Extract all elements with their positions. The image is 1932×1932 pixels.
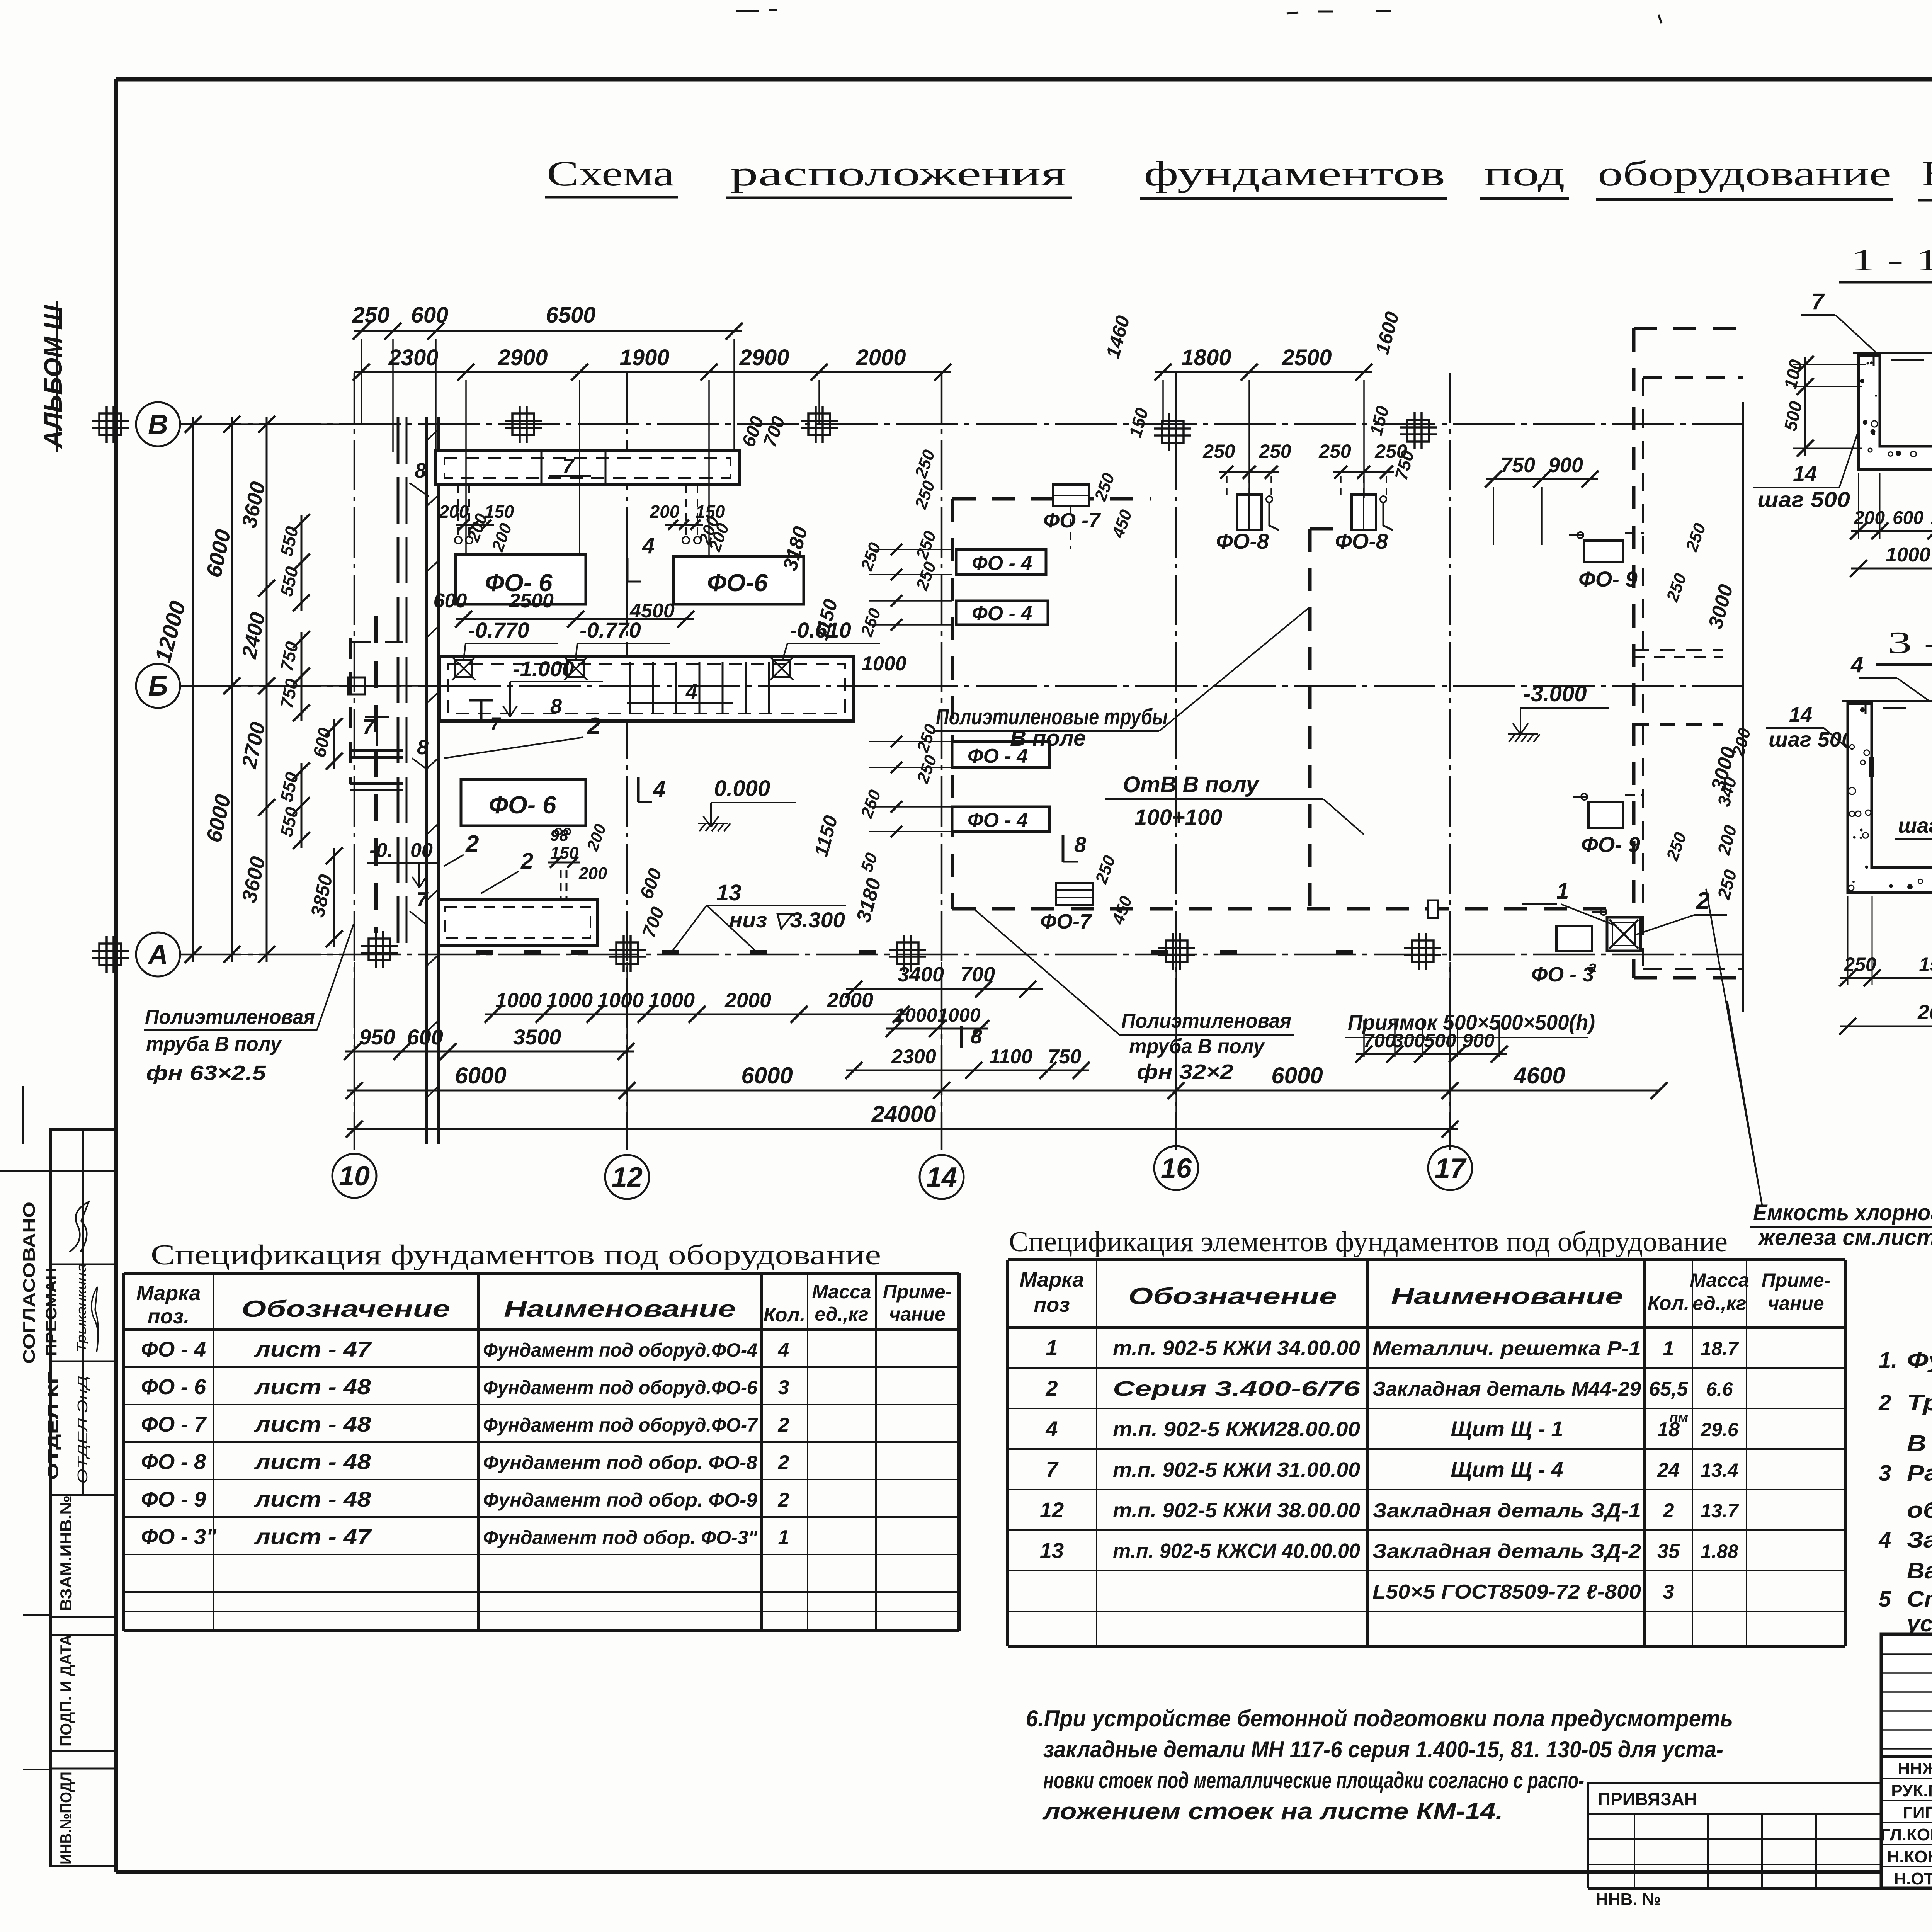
- svg-text:3: 3: [778, 1376, 789, 1399]
- svg-text:Приме-: Приме-: [883, 1281, 952, 1303]
- svg-text:Закладная деталь ЗД-2: Закладная деталь ЗД-2: [1372, 1540, 1641, 1563]
- svg-text:18.7: 18.7: [1701, 1338, 1739, 1359]
- svg-text:2: 2: [1045, 1376, 1058, 1400]
- svg-text:лист - 48: лист - 48: [254, 1412, 371, 1436]
- svg-text:ОтВ В полу: ОтВ В полу: [1123, 772, 1260, 797]
- svg-text:ГЛ.КОНС.: ГЛ.КОНС.: [1881, 1825, 1932, 1844]
- svg-text:950: 950: [359, 1025, 395, 1049]
- svg-text:2: 2: [1663, 1500, 1674, 1522]
- svg-text:Фундамент под обор. ФО-8: Фундамент под обор. ФО-8: [483, 1452, 757, 1473]
- svg-text:ФО- 9: ФО- 9: [1581, 832, 1640, 857]
- svg-text:Обозначение: Обозначение: [1128, 1283, 1337, 1309]
- svg-text:СОГЛАСОВАНО: СОГЛАСОВАНО: [20, 1202, 39, 1364]
- svg-text:24000: 24000: [871, 1101, 936, 1127]
- svg-text:12: 12: [612, 1162, 643, 1193]
- svg-text:7: 7: [1046, 1457, 1059, 1481]
- svg-text:Кол.: Кол.: [764, 1304, 806, 1326]
- svg-text:ГИП: ГИП: [1903, 1803, 1932, 1822]
- svg-text:Фундаменты под оборудование: Фундаменты под оборудование см. лист КЖ …: [1907, 1348, 1932, 1373]
- svg-text:-0.: -0.: [369, 839, 393, 862]
- svg-text:Щит Щ - 4: Щит Щ - 4: [1451, 1457, 1563, 1481]
- svg-text:Закладные В стене для подве: Закладные В стене для подвески кабеля ус…: [1907, 1527, 1932, 1553]
- svg-text:железа см.лист: железа см.лист: [1757, 1225, 1932, 1250]
- svg-text:24: 24: [1657, 1459, 1680, 1481]
- svg-text:фн 32×2: фн 32×2: [1137, 1060, 1233, 1083]
- svg-text:2: 2: [778, 1414, 789, 1436]
- svg-text:Н.ОТД: Н.ОТД: [1894, 1869, 1932, 1888]
- svg-text:Фундамент под обор. ФО-3": Фундамент под обор. ФО-3": [483, 1527, 758, 1548]
- svg-text:фундаментов: фундаментов: [1144, 154, 1445, 193]
- svg-text:ФО - 4: ФО - 4: [141, 1337, 206, 1361]
- svg-text:ФО-8: ФО-8: [1216, 529, 1269, 553]
- column symbols on axes: [99, 413, 121, 435]
- svg-text:Н.КОНТ.: Н.КОНТ.: [1887, 1847, 1932, 1866]
- building outline right: [1742, 402, 1744, 1012]
- svg-text:17: 17: [1435, 1153, 1467, 1184]
- bottom-left grid of title block: [1587, 1814, 1589, 1888]
- svg-text:лист - 47: лист - 47: [254, 1524, 372, 1549]
- svg-text:2500: 2500: [1281, 345, 1332, 370]
- sheet frame: [116, 77, 1932, 82]
- svg-text:2: 2: [465, 831, 479, 857]
- svg-text:ФО - 3": ФО - 3": [141, 1524, 217, 1549]
- svg-text:т.п. 902-5 КЖИ 31.00.00: т.п. 902-5 КЖИ 31.00.00: [1113, 1458, 1360, 1481]
- svg-text:250: 250: [1202, 440, 1235, 462]
- column grid lines 10,12,14,16,17: [354, 373, 355, 1150]
- svg-text:3: 3: [1879, 1461, 1891, 1486]
- svg-text:Полиэтиленовая: Полиэтиленовая: [145, 1005, 315, 1029]
- svg-text:Б: Б: [148, 671, 168, 702]
- svg-text:ФО -7: ФО -7: [1043, 509, 1101, 532]
- svg-text:Схема: Схема: [547, 154, 674, 193]
- svg-text:шаг 500: шаг 500: [1769, 728, 1854, 751]
- svg-text:Щит Щ - 1: Щит Щ - 1: [1451, 1417, 1563, 1441]
- svg-text:35: 35: [1657, 1540, 1680, 1563]
- svg-text:1: 1: [778, 1526, 789, 1549]
- svg-text:лист - 47: лист - 47: [254, 1337, 372, 1361]
- FO-8 boxes: [1237, 495, 1262, 530]
- svg-text:В осях 10÷17: В осях 10÷17: [1922, 154, 1932, 193]
- column circle 17: [1428, 1146, 1472, 1190]
- svg-text:1100: 1100: [989, 1046, 1032, 1068]
- svg-text:новки стоек под металлически: новки стоек под металлические площадки с…: [1043, 1767, 1584, 1793]
- svg-text:250: 250: [1844, 954, 1876, 975]
- top dim row 1: [354, 330, 742, 332]
- small white pipe mark on dashed line: [1428, 900, 1438, 918]
- dim 750 900 above FO-9: [1486, 478, 1598, 480]
- svg-text:под: под: [1484, 154, 1565, 193]
- svg-text:3: 3: [1663, 1581, 1674, 1603]
- svg-text:6000: 6000: [1271, 1063, 1323, 1088]
- pit (priyamok) near col17: [1556, 926, 1592, 951]
- svg-text:13.4: 13.4: [1701, 1459, 1738, 1481]
- embedded detail marks on axis A: [476, 950, 493, 955]
- svg-text:7: 7: [1811, 289, 1825, 314]
- svg-text:Металлич. решетка Р-1: Металлич. решетка Р-1: [1372, 1337, 1641, 1360]
- svg-text:Серия 3.400-6/76: Серия 3.400-6/76: [1113, 1377, 1361, 1400]
- svg-text:Полиэтиленовая: Полиэтиленовая: [1121, 1009, 1291, 1032]
- wall B (main vertical wall): [425, 417, 428, 1144]
- svg-text:Разбивка отверстий и закла: Разбивка отверстий и закладных В фундаме…: [1907, 1461, 1932, 1486]
- axis circle A: [136, 932, 180, 976]
- svg-text:Приямок 500×500×500(h): Приямок 500×500×500(h): [1348, 1010, 1595, 1034]
- svg-text:2900: 2900: [497, 345, 548, 370]
- svg-text:7: 7: [562, 455, 575, 478]
- svg-text:т.п. 902-5 КЖИ 38.00.00: т.п. 902-5 КЖИ 38.00.00: [1113, 1499, 1360, 1522]
- svg-text:2: 2: [587, 713, 600, 740]
- svg-text:13: 13: [716, 880, 742, 905]
- svg-text:8: 8: [971, 1025, 982, 1048]
- svg-text:14: 14: [926, 1162, 957, 1193]
- svg-text:-0.770: -0.770: [468, 618, 529, 642]
- svg-text:1000: 1000: [597, 989, 644, 1012]
- column circle 14: [920, 1155, 964, 1199]
- svg-text:Фундамент под обор. ФО-9: Фундамент под обор. ФО-9: [483, 1489, 757, 1511]
- svg-text:10: 10: [339, 1161, 370, 1192]
- svg-text:фн 63×2.5: фн 63×2.5: [146, 1061, 266, 1085]
- small frame marks left: [22, 1086, 24, 1144]
- svg-text:4: 4: [1045, 1417, 1058, 1441]
- svg-text:1: 1: [1663, 1337, 1674, 1360]
- FO-7 bottom: [1056, 883, 1093, 905]
- svg-text:А: А: [147, 939, 168, 970]
- soglasovano block: [51, 1129, 116, 1866]
- svg-text:шаг 500: шаг 500: [1898, 814, 1932, 837]
- svg-text:ед.,кг: ед.,кг: [1692, 1293, 1746, 1314]
- svg-text:Закладная деталь ЗД-1: Закладная деталь ЗД-1: [1372, 1500, 1641, 1522]
- svg-text:ФО- 9: ФО- 9: [1578, 567, 1638, 591]
- stair treads: [629, 662, 631, 713]
- svg-text:пм: пм: [1670, 1409, 1689, 1425]
- svg-text:закладные детали МН 117-6: закладные детали МН 117-6 серия 1.400-15…: [1043, 1736, 1723, 1762]
- svg-text:14: 14: [1793, 461, 1817, 486]
- svg-text:1000: 1000: [862, 653, 906, 675]
- FO-6 no.3: [461, 779, 586, 826]
- anchor bolts under top strip: [457, 485, 459, 536]
- svg-text:1000: 1000: [1886, 544, 1930, 566]
- svg-text:шаг 500: шаг 500: [1757, 487, 1850, 512]
- svg-text:-3.000: -3.000: [1523, 681, 1587, 706]
- svg-text:750: 750: [1500, 454, 1535, 477]
- svg-text:ОТДЕЛ ЭнД: ОТДЕЛ ЭнД: [75, 1376, 90, 1484]
- svg-text:4: 4: [1878, 1527, 1891, 1553]
- svg-text:1 - 1: 1 - 1: [1851, 243, 1932, 277]
- svg-text:600: 600: [1893, 508, 1923, 528]
- svg-text:13.7: 13.7: [1701, 1500, 1739, 1522]
- svg-text:ННЖ.: ННЖ.: [1898, 1759, 1932, 1778]
- section 1-1 channel: [1859, 355, 1932, 469]
- svg-text:ННВ. №: ННВ. №: [1596, 1890, 1661, 1909]
- svg-text:оборудование: оборудование: [1598, 154, 1891, 193]
- svg-text:1.: 1.: [1879, 1348, 1897, 1373]
- svg-text:8: 8: [415, 459, 426, 482]
- privyazan box: [1588, 1783, 1881, 1814]
- svg-text:600: 600: [407, 1025, 443, 1049]
- tank internal dashed lines: [1634, 649, 1723, 651]
- svg-text:7: 7: [417, 888, 429, 911]
- column circle 10: [332, 1154, 376, 1198]
- svg-text:00: 00: [410, 839, 433, 862]
- svg-text:2000: 2000: [855, 345, 906, 370]
- signature thin rows: [1881, 1653, 1932, 1655]
- svg-text:ФО - 3: ФО - 3: [1531, 963, 1594, 986]
- svg-text:Наименование: Наименование: [504, 1296, 736, 1322]
- svg-text:7: 7: [490, 714, 501, 735]
- svg-text:1000: 1000: [937, 1004, 980, 1026]
- svg-text:100+100: 100+100: [1134, 805, 1222, 830]
- level markers on mid channel: [455, 660, 472, 677]
- svg-text:250: 250: [1259, 440, 1291, 462]
- FO-6 no.2: [673, 556, 804, 604]
- svg-text:ложением стоек на листе КМ: ложением стоек на листе КМ-14.: [1042, 1798, 1503, 1824]
- svg-text:Спецификация элементов фундаме: Спецификация элементов фундаментов под о…: [1009, 1226, 1728, 1258]
- title block outer: [1881, 1634, 1932, 1888]
- svg-text:Стены канала выполнить из: Стены канала выполнить из бетона марки В…: [1907, 1587, 1932, 1612]
- svg-text:250: 250: [352, 303, 390, 328]
- svg-text:6.При устройстве бетонной по: 6.При устройстве бетонной подготовки пол…: [1026, 1706, 1733, 1731]
- svg-text:3 - 3: 3 - 3: [1888, 626, 1932, 660]
- svg-text:расположения: расположения: [730, 154, 1066, 193]
- svg-text:7: 7: [362, 714, 376, 739]
- svg-text:1: 1: [1046, 1335, 1058, 1360]
- svg-text:13: 13: [1040, 1538, 1064, 1563]
- svg-text:поз: поз: [1034, 1293, 1070, 1316]
- svg-text:В поле: В поле: [1010, 726, 1086, 751]
- svg-text:Закладная деталь М44-29: Закладная деталь М44-29: [1372, 1378, 1641, 1400]
- T7 mark in channel: [480, 699, 483, 723]
- svg-text:2300: 2300: [891, 1046, 936, 1068]
- dim 700 300 500 900: [1356, 1053, 1507, 1055]
- svg-text:ФО-8: ФО-8: [1335, 529, 1388, 553]
- svg-text:низ ▽3.300: низ ▽3.300: [729, 908, 845, 932]
- svg-text:ед.,кг: ед.,кг: [815, 1303, 868, 1325]
- svg-text:2: 2: [778, 1451, 789, 1474]
- dim 1000 1000 / 8: [886, 1028, 988, 1030]
- stray top marks: [736, 10, 759, 12]
- svg-text:2000: 2000: [1917, 1001, 1932, 1024]
- wall A (hidden, dashed): [397, 417, 400, 954]
- svg-text:Фундамент под оборуд.ФО-4: Фундамент под оборуд.ФО-4: [483, 1339, 757, 1361]
- svg-text:2300: 2300: [388, 345, 438, 370]
- FO-7 top: [1053, 485, 1089, 506]
- svg-text:т.п. 902-5 КЖИ28.00.00: т.п. 902-5 КЖИ28.00.00: [1113, 1418, 1360, 1441]
- svg-text:Обозначение: Обозначение: [241, 1296, 450, 1322]
- svg-text:Наименование: Наименование: [1391, 1283, 1623, 1309]
- svg-text:8: 8: [1074, 832, 1087, 857]
- svg-text:6000: 6000: [455, 1063, 506, 1088]
- room 7 walls below B axis: [350, 749, 403, 752]
- axis line B: [180, 423, 1743, 425]
- svg-text:РУК.ГР: РУК.ГР: [1891, 1781, 1932, 1800]
- svg-text:2500: 2500: [509, 590, 554, 612]
- svg-text:Фундамент под оборуд.ФО-6: Фундамент под оборуд.ФО-6: [483, 1377, 758, 1398]
- svg-text:200: 200: [439, 502, 469, 522]
- svg-text:ВЗАМ.ИНВ.№: ВЗАМ.ИНВ.№: [57, 1495, 75, 1611]
- left dim columns: [192, 417, 194, 962]
- svg-text:Фундамент под оборуд.ФО-7: Фундамент под оборуд.ФО-7: [483, 1414, 758, 1436]
- svg-text:5: 5: [1879, 1587, 1891, 1612]
- svg-text:Трубы для подвода кабеля к: Трубы для подвода кабеля к двигателям за…: [1907, 1390, 1932, 1415]
- svg-text:900: 900: [1548, 454, 1583, 477]
- spec table 1 grid: [124, 1272, 959, 1275]
- svg-text:12: 12: [1040, 1498, 1064, 1522]
- svg-text:8: 8: [417, 736, 429, 759]
- svg-text:600: 600: [411, 303, 449, 328]
- tank dashed rectangle: [1634, 327, 1743, 330]
- svg-text:ПРЕСМАН: ПРЕСМАН: [43, 1267, 60, 1356]
- axis line B(mid): [180, 685, 1743, 687]
- svg-text:поз.: поз.: [148, 1305, 190, 1328]
- svg-text:ФО- 6: ФО- 6: [489, 791, 556, 819]
- svg-text:ФО - 6: ФО - 6: [141, 1374, 206, 1399]
- svg-text:ФО - 8: ФО - 8: [141, 1449, 206, 1474]
- svg-text:ИНВ.№ПОДЛ: ИНВ.№ПОДЛ: [57, 1772, 75, 1864]
- svg-text:1000: 1000: [894, 1004, 937, 1026]
- svg-text:лист - 48: лист - 48: [254, 1449, 371, 1474]
- svg-text:АЛЬБОМ Ш: АЛЬБОМ Ш: [39, 305, 67, 449]
- heavy hidden line in room 7: [374, 616, 378, 933]
- spec table 2 grid: [1008, 1258, 1845, 1261]
- svg-text:600: 600: [434, 590, 467, 612]
- section 3-3 channel: [1848, 704, 1932, 893]
- svg-text:2: 2: [1878, 1390, 1891, 1415]
- section 1-1 left dims: [1804, 357, 1806, 456]
- svg-text:Масса: Масса: [812, 1281, 871, 1303]
- svg-text:1500: 1500: [1919, 954, 1932, 975]
- svg-text:2900: 2900: [739, 345, 789, 370]
- svg-text:4: 4: [685, 680, 697, 703]
- FO-9 bottom: [1588, 802, 1623, 828]
- svg-text:Вать В соответствии с черт: Вать В соответствии с чертежами ЭАД: [1907, 1558, 1932, 1583]
- svg-text:8: 8: [550, 695, 562, 718]
- svg-text:4: 4: [642, 533, 655, 558]
- bolts into lower strip: [560, 870, 562, 900]
- svg-text:лист - 48: лист - 48: [254, 1487, 371, 1511]
- svg-text:В: В: [148, 409, 168, 440]
- svg-text:оборудование уточнить после: оборудование уточнить после получения об…: [1907, 1498, 1932, 1523]
- svg-text:лист - 48: лист - 48: [254, 1374, 371, 1399]
- bottom dim chains: [485, 1014, 909, 1015]
- svg-text:1900: 1900: [619, 345, 669, 370]
- svg-text:ФО - 4: ФО - 4: [972, 602, 1032, 625]
- svg-text:0.000: 0.000: [714, 776, 770, 801]
- svg-text:ФО - 4: ФО - 4: [972, 552, 1032, 575]
- svg-text:ПОДП. И ДАТА: ПОДП. И ДАТА: [57, 1634, 75, 1747]
- column circle 16: [1154, 1146, 1198, 1190]
- dim 3400 700: [846, 988, 1043, 990]
- svg-text:6500: 6500: [546, 303, 595, 328]
- svg-text:Масса: Масса: [1690, 1269, 1749, 1291]
- svg-text:4600: 4600: [1513, 1063, 1565, 1088]
- dim 2300 1100 750: [846, 1070, 1089, 1071]
- svg-text:3500: 3500: [513, 1025, 561, 1049]
- svg-text:т.п. 902-5 КЖИ 34.00.00: т.п. 902-5 КЖИ 34.00.00: [1113, 1337, 1360, 1360]
- top dim row 2: [354, 371, 951, 373]
- ground hatch: [699, 823, 706, 831]
- svg-text:Марка: Марка: [1020, 1268, 1084, 1291]
- svg-text:L50×5 ГОСТ8509-72 ℓ-800: L50×5 ГОСТ8509-72 ℓ-800: [1372, 1581, 1641, 1603]
- svg-text:4: 4: [653, 777, 665, 802]
- svg-text:В конструкцию пола (см. че: В конструкцию пола (см. чертежи ЭМ ): [1907, 1431, 1932, 1456]
- top channel strip: [436, 451, 739, 485]
- svg-text:1.88: 1.88: [1701, 1541, 1738, 1562]
- svg-text:ФО - 4: ФО - 4: [968, 809, 1028, 832]
- svg-text:чание: чание: [1768, 1293, 1824, 1314]
- svg-text:Емкость хлорного: Емкость хлорного: [1753, 1200, 1932, 1225]
- svg-text:Трыканкина: Трыканкина: [74, 1264, 89, 1352]
- svg-text:700: 700: [960, 963, 995, 986]
- dashed pipe zone rectangle: [952, 497, 1151, 501]
- svg-text:ОТДЕЛ КГ: ОТДЕЛ КГ: [45, 1372, 61, 1480]
- svg-text:16: 16: [1161, 1153, 1192, 1184]
- svg-text:6000: 6000: [741, 1063, 793, 1088]
- svg-text:а: а: [1588, 958, 1597, 975]
- svg-text:3400: 3400: [898, 963, 944, 986]
- section 1-1 bottom dims: [1851, 530, 1932, 532]
- svg-text:250: 250: [1318, 440, 1351, 462]
- svg-text:6.6: 6.6: [1706, 1378, 1733, 1400]
- svg-text:-1.000: -1.000: [513, 656, 574, 681]
- svg-text:1000: 1000: [495, 989, 542, 1012]
- svg-text:ФО-7: ФО-7: [1040, 910, 1092, 933]
- svg-text:2: 2: [520, 849, 533, 874]
- svg-text:1000: 1000: [648, 989, 695, 1012]
- axis line A: [180, 954, 1743, 956]
- middle channel with stair: [439, 657, 854, 721]
- svg-text:200: 200: [578, 864, 607, 883]
- svg-text:1000: 1000: [546, 989, 593, 1012]
- svg-text:29.6: 29.6: [1700, 1419, 1739, 1440]
- axis circle V: [136, 402, 180, 446]
- svg-text:Приме-: Приме-: [1762, 1269, 1831, 1291]
- dim ticks left of FO-4: [869, 549, 952, 550]
- svg-text:т.п. 902-5 КЖСИ 40.00.00: т.п. 902-5 КЖСИ 40.00.00: [1113, 1539, 1360, 1563]
- svg-text:65,5: 65,5: [1649, 1378, 1688, 1400]
- axis circle B: [136, 664, 180, 708]
- svg-text:труба В полу: труба В полу: [1129, 1035, 1265, 1058]
- svg-text:Марка: Марка: [136, 1282, 201, 1305]
- svg-text:ФО - 7: ФО - 7: [141, 1412, 207, 1436]
- svg-text:4: 4: [1850, 652, 1863, 677]
- svg-text:14: 14: [1789, 703, 1812, 726]
- svg-text:98: 98: [550, 826, 568, 844]
- svg-text:2: 2: [778, 1489, 789, 1511]
- svg-text:4: 4: [778, 1339, 789, 1361]
- svg-text:2000: 2000: [724, 989, 771, 1012]
- svg-text:ФО-6: ФО-6: [707, 569, 768, 597]
- top dim 1800 2500: [1155, 371, 1372, 373]
- svg-text:750: 750: [1048, 1046, 1082, 1068]
- svg-text:1: 1: [1556, 879, 1569, 904]
- svg-text:200: 200: [650, 502, 680, 522]
- svg-text:ФО - 9: ФО - 9: [141, 1487, 206, 1511]
- svg-text:Кол.: Кол.: [1648, 1292, 1690, 1315]
- svg-text:ПРИВЯЗАН: ПРИВЯЗАН: [1598, 1789, 1697, 1809]
- column circle 12: [605, 1155, 649, 1199]
- FO-9 top: [1584, 541, 1623, 562]
- svg-text:чание: чание: [889, 1303, 946, 1325]
- FO-4 boxes: [956, 549, 1046, 575]
- svg-text:Спецификация фундаментов под о: Спецификация фундаментов под оборудовани…: [151, 1239, 881, 1271]
- lower channel strip: [438, 900, 597, 945]
- section 3-3 bottom dims: [1840, 977, 1932, 979]
- svg-text:1800: 1800: [1181, 345, 1231, 370]
- FO-6 no.1: [456, 554, 586, 604]
- svg-text:труба В полу: труба В полу: [146, 1032, 282, 1056]
